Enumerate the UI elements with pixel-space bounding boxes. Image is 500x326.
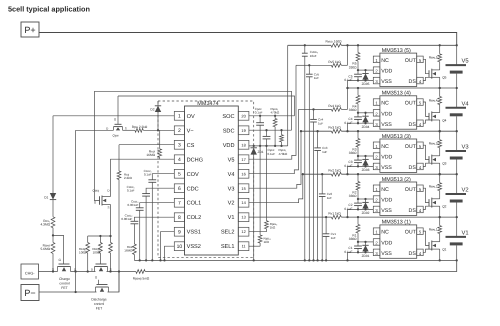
wire DS to transistor cell 2 [423,206,432,209]
svg-text:5.6MΩ: 5.6MΩ [41,247,51,251]
wire SDC pin line [249,129,292,131]
sense filter resistor RV1 1kohm [331,215,341,219]
svg-text:330Ω: 330Ω [349,237,357,241]
svg-text:DS: DS [409,208,417,214]
svg-text:VSS1: VSS1 [187,230,201,236]
wire COV pin to capacitor [152,174,174,180]
svg-text:NC: NC [381,101,389,107]
svg-text:Rᴠ2 1kΩ: Rᴠ2 1kΩ [328,169,341,173]
wire VSS pin3 to lower node cell 4 [348,123,374,131]
svg-text:ZD05: ZD05 [362,82,370,86]
capacitor CCOV1 0.1uF [148,179,156,181]
svg-text:OUT: OUT [405,187,417,193]
IC pin 4 DCHG [174,155,184,164]
resistor RSDC1 470kohm [280,129,282,131]
capacitor CV1 1uF [325,216,327,218]
battery cell V3 [456,131,458,151]
svg-text:13: 13 [241,215,245,220]
svg-text:D2: D2 [150,107,154,111]
svg-text:Rʙᴀʟ4: Rʙᴀʟ4 [429,98,438,102]
battery cell V5 [456,45,458,65]
svg-text:Q3: Q3 [442,162,446,166]
wire SEL1 pin [249,245,260,247]
svg-text:VSS2: VSS2 [187,244,201,250]
switch transistor QSW [114,126,123,128]
IC pin 18 VDD [238,140,249,149]
wire VDD pin line [249,145,288,147]
svg-text:FET: FET [61,286,67,290]
wire OUT to gate cell 2 [423,188,429,202]
sense filter resistor RV5 1kohm [331,63,341,67]
svg-text:0.1uF: 0.1uF [344,121,352,125]
resistor R4 330ohm [357,87,359,89]
MM3513 (5) pin 5 OUT [417,56,424,63]
wire VDD node to pin2 cell 2 [358,198,373,200]
sense filter resistor RV2 1kohm [331,172,341,176]
svg-text:4.3MΩ: 4.3MΩ [41,223,51,227]
IC pin 12 SEL2 [238,227,249,236]
zener diode ZD01 [364,241,366,243]
svg-text:Qᴅɪş: Qᴅɪş [92,189,99,193]
diode D1 [52,116,54,193]
resistor RDIS2 100ohm (gate) [99,236,101,243]
MM3513 (2) pin 1 NC [373,185,380,192]
wire node row cell3-/cell2+ [303,173,332,175]
sense resistor RSENS 5mohm [136,270,145,274]
svg-text:12: 12 [241,229,245,234]
wire VDD node to pin2 cell 4 [358,112,373,114]
svg-text:330Ω: 330Ω [349,194,357,198]
svg-text:100Ω: 100Ω [93,251,101,255]
svg-text:470kΩ: 470kΩ [279,152,289,156]
svg-text:V4: V4 [228,172,235,178]
capacitor C4 0.1uF [357,113,359,117]
capacitor C2 0.1uF [357,199,359,203]
IC pin 16 V4 [238,169,249,178]
svg-text:ZD04: ZD04 [362,125,370,129]
wire SOC control line to QSW gate [118,96,295,116]
wire IC V2 pin feed [249,174,303,203]
svg-text:VSS: VSS [381,251,392,257]
capacitor CCOL2 0.001uF [131,220,139,222]
wire bottom return rail [145,260,457,271]
svg-text:3: 3 [178,143,181,149]
MM3513 (3) pin 1 NC [373,142,380,149]
MM3513 (3) pin 3 VSS [373,163,380,170]
balance resistor RBAL3 [439,130,441,132]
IC pin 14 V2 [238,198,249,207]
svg-text:Discharge: Discharge [91,298,106,302]
resistor R5 330ohm [357,44,359,46]
battery cell V1 [456,217,458,237]
svg-text:Rşᴇɴş 5mΩ: Rşᴇɴş 5mΩ [133,276,150,280]
capacitor CV5 1uF [308,64,310,66]
MM3513 (3) pin 4 DS [417,163,424,170]
balance resistor RBAL4 [439,87,441,89]
svg-text:330Ω: 330Ω [349,151,357,155]
capacitor CV4 1uF [312,108,314,110]
svg-text:0.1uF: 0.1uF [268,152,276,156]
wire VSS pin3 to lower node cell 5 [348,81,374,89]
svg-text:0.1uF: 0.1uF [144,173,152,177]
resistor RDIS1 100ohm [87,236,89,243]
sense filter resistor RV3 1kohm [331,129,341,133]
wire SEL2 pin [249,231,267,233]
resistor R2 330ohm [357,173,359,175]
svg-text:1: 1 [178,114,181,120]
MM3513 (2) pin 4 DS [417,206,424,213]
wire SOC pin line [249,115,295,117]
battery cell V4 [456,88,458,108]
wire OUT to gate cell 3 [423,145,429,159]
zener diode ZD02 [364,198,366,200]
IC pin 2 V− [174,126,184,135]
svg-text:OUT: OUT [405,144,417,150]
svg-text:DS: DS [409,79,417,85]
capacitor C3 0.1uF [357,156,359,160]
svg-text:Rşᴡ 2.2kΩ: Rşᴡ 2.2kΩ [132,125,148,129]
wire VSS pin3 to lower node cell 1 [348,252,374,260]
MM3513 (4) pin 2 VDD [373,110,380,117]
wire IC V3 pin feed [249,131,301,188]
svg-text:0.001uF: 0.001uF [127,203,138,207]
wire rail between FETs [107,271,136,273]
wire VDD node to pin2 cell 1 [358,241,373,243]
svg-text:FET: FET [96,306,102,310]
charge control FET [58,266,71,268]
resistor gate pulldown third [110,236,112,243]
svg-text:16: 16 [241,171,245,176]
svg-text:COL1: COL1 [187,201,202,207]
svg-text:V1: V1 [228,215,235,221]
resistor RCS 2.2kohm [118,145,120,171]
MM3513 (5) pin 1 NC [373,56,380,63]
svg-text:330Ω: 330Ω [349,108,357,112]
svg-text:Rᴠ5 1kΩ: Rᴠ5 1kΩ [328,60,341,64]
svg-text:0.1uF: 0.1uF [255,111,263,115]
svg-text:18: 18 [241,142,245,147]
wire CS pin line [119,144,174,146]
IC MM3474 body [185,106,239,255]
svg-text:1uF: 1uF [318,121,323,125]
wire QSW drain to P- node [76,129,114,131]
resistor R1 330ohm [357,216,359,218]
svg-text:2: 2 [178,128,181,134]
svg-text:ZD01: ZD01 [362,254,370,258]
zener diode ZD1 [253,146,255,147]
svg-text:ZD03: ZD03 [362,168,370,172]
svg-text:VDD: VDD [381,155,392,161]
svg-text:2.2kΩ: 2.2kΩ [124,176,133,180]
svg-text:SOC: SOC [222,114,234,120]
MM3513 (1) pin 1 NC [373,228,380,235]
IC pin 1 OV [174,111,184,120]
balance transistor Q1 [428,242,430,249]
zener diode ZD05 [364,69,366,71]
svg-text:SEL1: SEL1 [221,244,235,250]
wire COL1 pin to capacitor [140,203,175,208]
svg-text:Rʙᴀʟ1: Rʙᴀʟ1 [429,227,438,231]
svg-text:Rᴠᴅᴅ 160Ω: Rᴠᴅᴅ 160Ω [326,39,343,43]
wire transistor source to lower node cell 4 [439,120,441,131]
svg-text:1uF: 1uF [314,76,319,80]
svg-text:Q5: Q5 [442,76,446,80]
wire SDC control line to QDIS gate [94,91,291,130]
balance resistor RBAL1 [439,216,441,218]
svg-text:1uF: 1uF [331,236,336,240]
svg-text:COV: COV [187,172,199,178]
transistor QDIS [99,196,101,204]
svg-text:V2: V2 [462,187,469,194]
balance resistor RBAL5 [439,44,441,46]
svg-text:V1: V1 [462,230,469,236]
IC pin 10 VSS2 [174,242,184,251]
wire IC V5 pin feed [249,65,296,159]
wire node row cell5-/cell4+ [348,87,457,89]
wire node row cell4-/cell3+ [301,130,331,132]
svg-text:V5: V5 [228,157,235,163]
svg-text:5cell typical application: 5cell typical application [8,4,90,13]
svg-text:V3: V3 [462,144,469,151]
MM3513 (1) pin 5 OUT [417,228,424,235]
svg-text:V2: V2 [228,201,235,207]
IC pin 6 CDC [174,184,184,193]
wire pack+ top rail [39,33,457,46]
svg-text:VSS: VSS [381,208,392,214]
svg-text:OUT: OUT [405,230,417,236]
svg-text:NC: NC [381,230,389,236]
wire VSS2 pin down [165,246,175,260]
wire COL2 pin to capacitor [134,217,174,221]
IC pin 15 V3 [238,184,249,193]
capacitor CCOL1 0.001uF [136,207,144,209]
svg-text:5: 5 [178,172,181,178]
IC pin 8 COL2 [174,213,184,222]
MM3513 (5) pin 3 VSS [373,77,380,84]
discharge control FET upper [95,266,108,268]
capacitor CVDD0 10uF [304,44,306,46]
MM3513 (2) pin 2 VDD [373,196,380,203]
resistor RSEL2 1kohm [266,146,268,221]
terminal P+ box [21,22,39,37]
svg-text:S: S [125,127,127,131]
svg-text:100Ω: 100Ω [79,251,87,255]
svg-text:Rʙᴀʟ3: Rʙᴀʟ3 [429,142,438,146]
MM3513 (2) pin 3 VSS [373,206,380,213]
wire transistor source to lower node cell 3 [439,163,441,174]
svg-text:11: 11 [242,244,246,249]
wire OUT to gate cell 1 [423,231,429,245]
MM3513 (1) pin 4 DS [417,249,424,256]
svg-text:S: S [52,267,54,271]
wire DS to transistor cell 3 [423,163,432,166]
MM3513 (3) pin 2 VDD [373,153,380,160]
capacitor CV2 1uF [321,173,323,175]
resistor RDN 16Mohm [133,244,137,255]
MM3513 (4) pin 1 NC [373,99,380,106]
svg-text:VDD: VDD [223,143,235,149]
resistor R3 330ohm [357,130,359,132]
wire P- line right end riser [108,272,120,293]
wire QSW gate line up [117,96,119,124]
resistor RSW 2.2kohm [123,129,135,131]
wire node row cell2-/cell1+ (V1 sense) [249,216,332,218]
svg-text:VDD: VDD [381,69,392,75]
IC pin 17 V5 [238,155,249,164]
svg-text:S: S [110,267,112,271]
svg-text:10uF: 10uF [310,54,317,58]
svg-text:control: control [59,282,69,286]
svg-text:control: control [94,302,104,306]
wire CDC pin to capacitor [146,188,174,193]
svg-text:Q2: Q2 [442,205,446,209]
wire drain node to P- vertical [75,130,77,292]
svg-text:0.1uF: 0.1uF [344,207,352,211]
IC pin 9 VSS1 [174,227,184,236]
balance transistor Q4 [428,113,430,120]
MM3513 (1) pin 3 VSS [373,249,380,256]
IC pin 20 SOC [238,111,249,120]
svg-text:V4: V4 [462,101,470,107]
svg-text:VSS: VSS [381,122,392,128]
svg-text:17: 17 [241,157,245,162]
wire P- line [39,291,97,293]
IC pin 7 COL1 [174,198,184,207]
svg-text:Rᴠ4 1kΩ: Rᴠ4 1kΩ [328,104,341,108]
svg-text:Rʙᴀʟ5: Rʙᴀʟ5 [429,56,438,60]
MM3513 (3) pin 5 OUT [417,142,424,149]
svg-text:OUT: OUT [405,101,417,107]
discharge control FET lower [96,286,109,288]
wire RV4 row to node row [341,108,347,110]
wire VSS pin3 to lower node cell 3 [348,166,374,174]
svg-text:0.1uF: 0.1uF [344,164,352,168]
IC MM3474 dashed module box [158,101,254,257]
svg-text:0.1uF: 0.1uF [344,250,352,254]
svg-text:NC: NC [381,58,389,64]
wire OUT to gate cell 5 [423,59,429,73]
wire transistor source to lower node cell 1 [439,249,441,260]
svg-text:330Ω: 330Ω [349,65,357,69]
svg-text:Charge: Charge [59,277,70,281]
svg-text:0.1uF: 0.1uF [344,78,352,82]
capacitor CCDC1 0.1uF [142,193,150,195]
svg-text:NC: NC [381,187,389,193]
battery cell V2 [456,174,458,194]
svg-text:1uF: 1uF [322,150,327,154]
MM3513 (1) pin 2 VDD [373,239,380,246]
MM3513 (4) pin 3 VSS [373,120,380,127]
wire DS to transistor cell 5 [423,77,432,80]
svg-text:Qşᴡ: Qşᴡ [113,133,120,137]
svg-text:OUT: OUT [405,58,417,64]
MM3513 (4) pin 4 DS [417,120,424,127]
svg-text:VDD: VDD [381,111,392,117]
wire DCHG pin to QDIS drain [111,159,175,196]
svg-text:P+: P+ [24,25,35,35]
svg-text:NC: NC [381,144,389,150]
IC pin 11 SEL1 [238,242,249,251]
svg-text:P−: P− [24,288,35,298]
wire transistor source to lower node cell 5 [439,77,441,88]
svg-text:CHG-: CHG- [25,271,35,275]
diode D2 on dashed edge [157,101,159,105]
svg-text:Q1: Q1 [442,248,446,252]
wire OV pin1 line [53,115,174,117]
wire node row cell5+ (VDD supply row) [288,44,331,46]
resistor RVDD 160ohm [331,43,341,47]
svg-text:S: S [107,206,109,210]
wire VSS pin3 to lower node cell 2 [348,209,374,217]
balance transistor Q5 [428,70,430,77]
balance transistor Q2 [428,199,430,206]
wire RV5 row to node row [341,64,347,66]
capacitor C5 0.1uF [357,70,359,74]
svg-text:16MΩ: 16MΩ [146,153,155,157]
balance transistor Q3 [428,156,430,163]
IC pin 3 CS [174,140,184,149]
sense filter resistor RV4 1kohm [331,108,341,112]
MM3513 (2) pin 5 OUT [417,185,424,192]
capacitor C1 0.1uF [357,242,359,246]
svg-text:OV: OV [187,114,195,120]
svg-text:COL2: COL2 [187,215,202,221]
IC pin 5 COV [174,169,184,178]
wire charge FET gate [53,235,64,264]
svg-text:15: 15 [241,186,245,191]
svg-text:Rᴠ1 1kΩ: Rᴠ1 1kΩ [328,212,341,216]
svg-text:DS: DS [409,122,417,128]
terminal P- box [21,285,39,301]
wire VDD node to pin2 cell 3 [358,155,373,157]
svg-text:V5: V5 [462,59,469,65]
svg-text:1kΩ: 1kΩ [264,240,270,244]
svg-text:1uF: 1uF [327,196,332,200]
zener diode ZD03 [364,155,366,157]
wire QDIS gate from SOC/SDC line [94,91,99,200]
svg-text:V3: V3 [228,186,235,192]
zener diode ZD04 [364,112,366,114]
svg-text:DS: DS [409,165,417,171]
resistor RSEL1 1kohm [259,146,261,235]
capacitor CV3 1uF [316,130,318,132]
svg-text:Rᴠ3 1kΩ: Rᴠ3 1kΩ [328,126,341,130]
MM3513 (5) pin 4 DS [417,77,424,84]
svg-text:VSS: VSS [381,165,392,171]
wire DS to transistor cell 1 [423,249,432,252]
resistor RCHG 5.6Mohm [52,235,54,242]
svg-text:0.1uF: 0.1uF [127,188,135,192]
IC pin 19 SDC [238,126,249,135]
svg-text:ZD1: ZD1 [258,150,264,154]
svg-text:Rʙᴀʟ2: Rʙᴀʟ2 [429,185,438,189]
svg-text:CDC: CDC [187,186,199,192]
wire DS to transistor cell 4 [423,120,432,123]
svg-text:19: 19 [241,128,245,133]
svg-text:SDC: SDC [223,128,235,134]
wire VSS1 pin down [161,232,175,261]
svg-text:4: 4 [178,157,181,163]
svg-text:VSS: VSS [381,79,392,85]
svg-text:8: 8 [178,215,181,221]
svg-text:470kΩ: 470kΩ [271,111,281,115]
svg-text:CS: CS [187,143,195,149]
IC pin 13 V1 [238,213,249,222]
balance resistor RBAL2 [439,173,441,175]
svg-text:7: 7 [178,201,181,207]
terminal CHG- box [21,264,39,279]
wire QDIS source to gate network [110,205,112,237]
